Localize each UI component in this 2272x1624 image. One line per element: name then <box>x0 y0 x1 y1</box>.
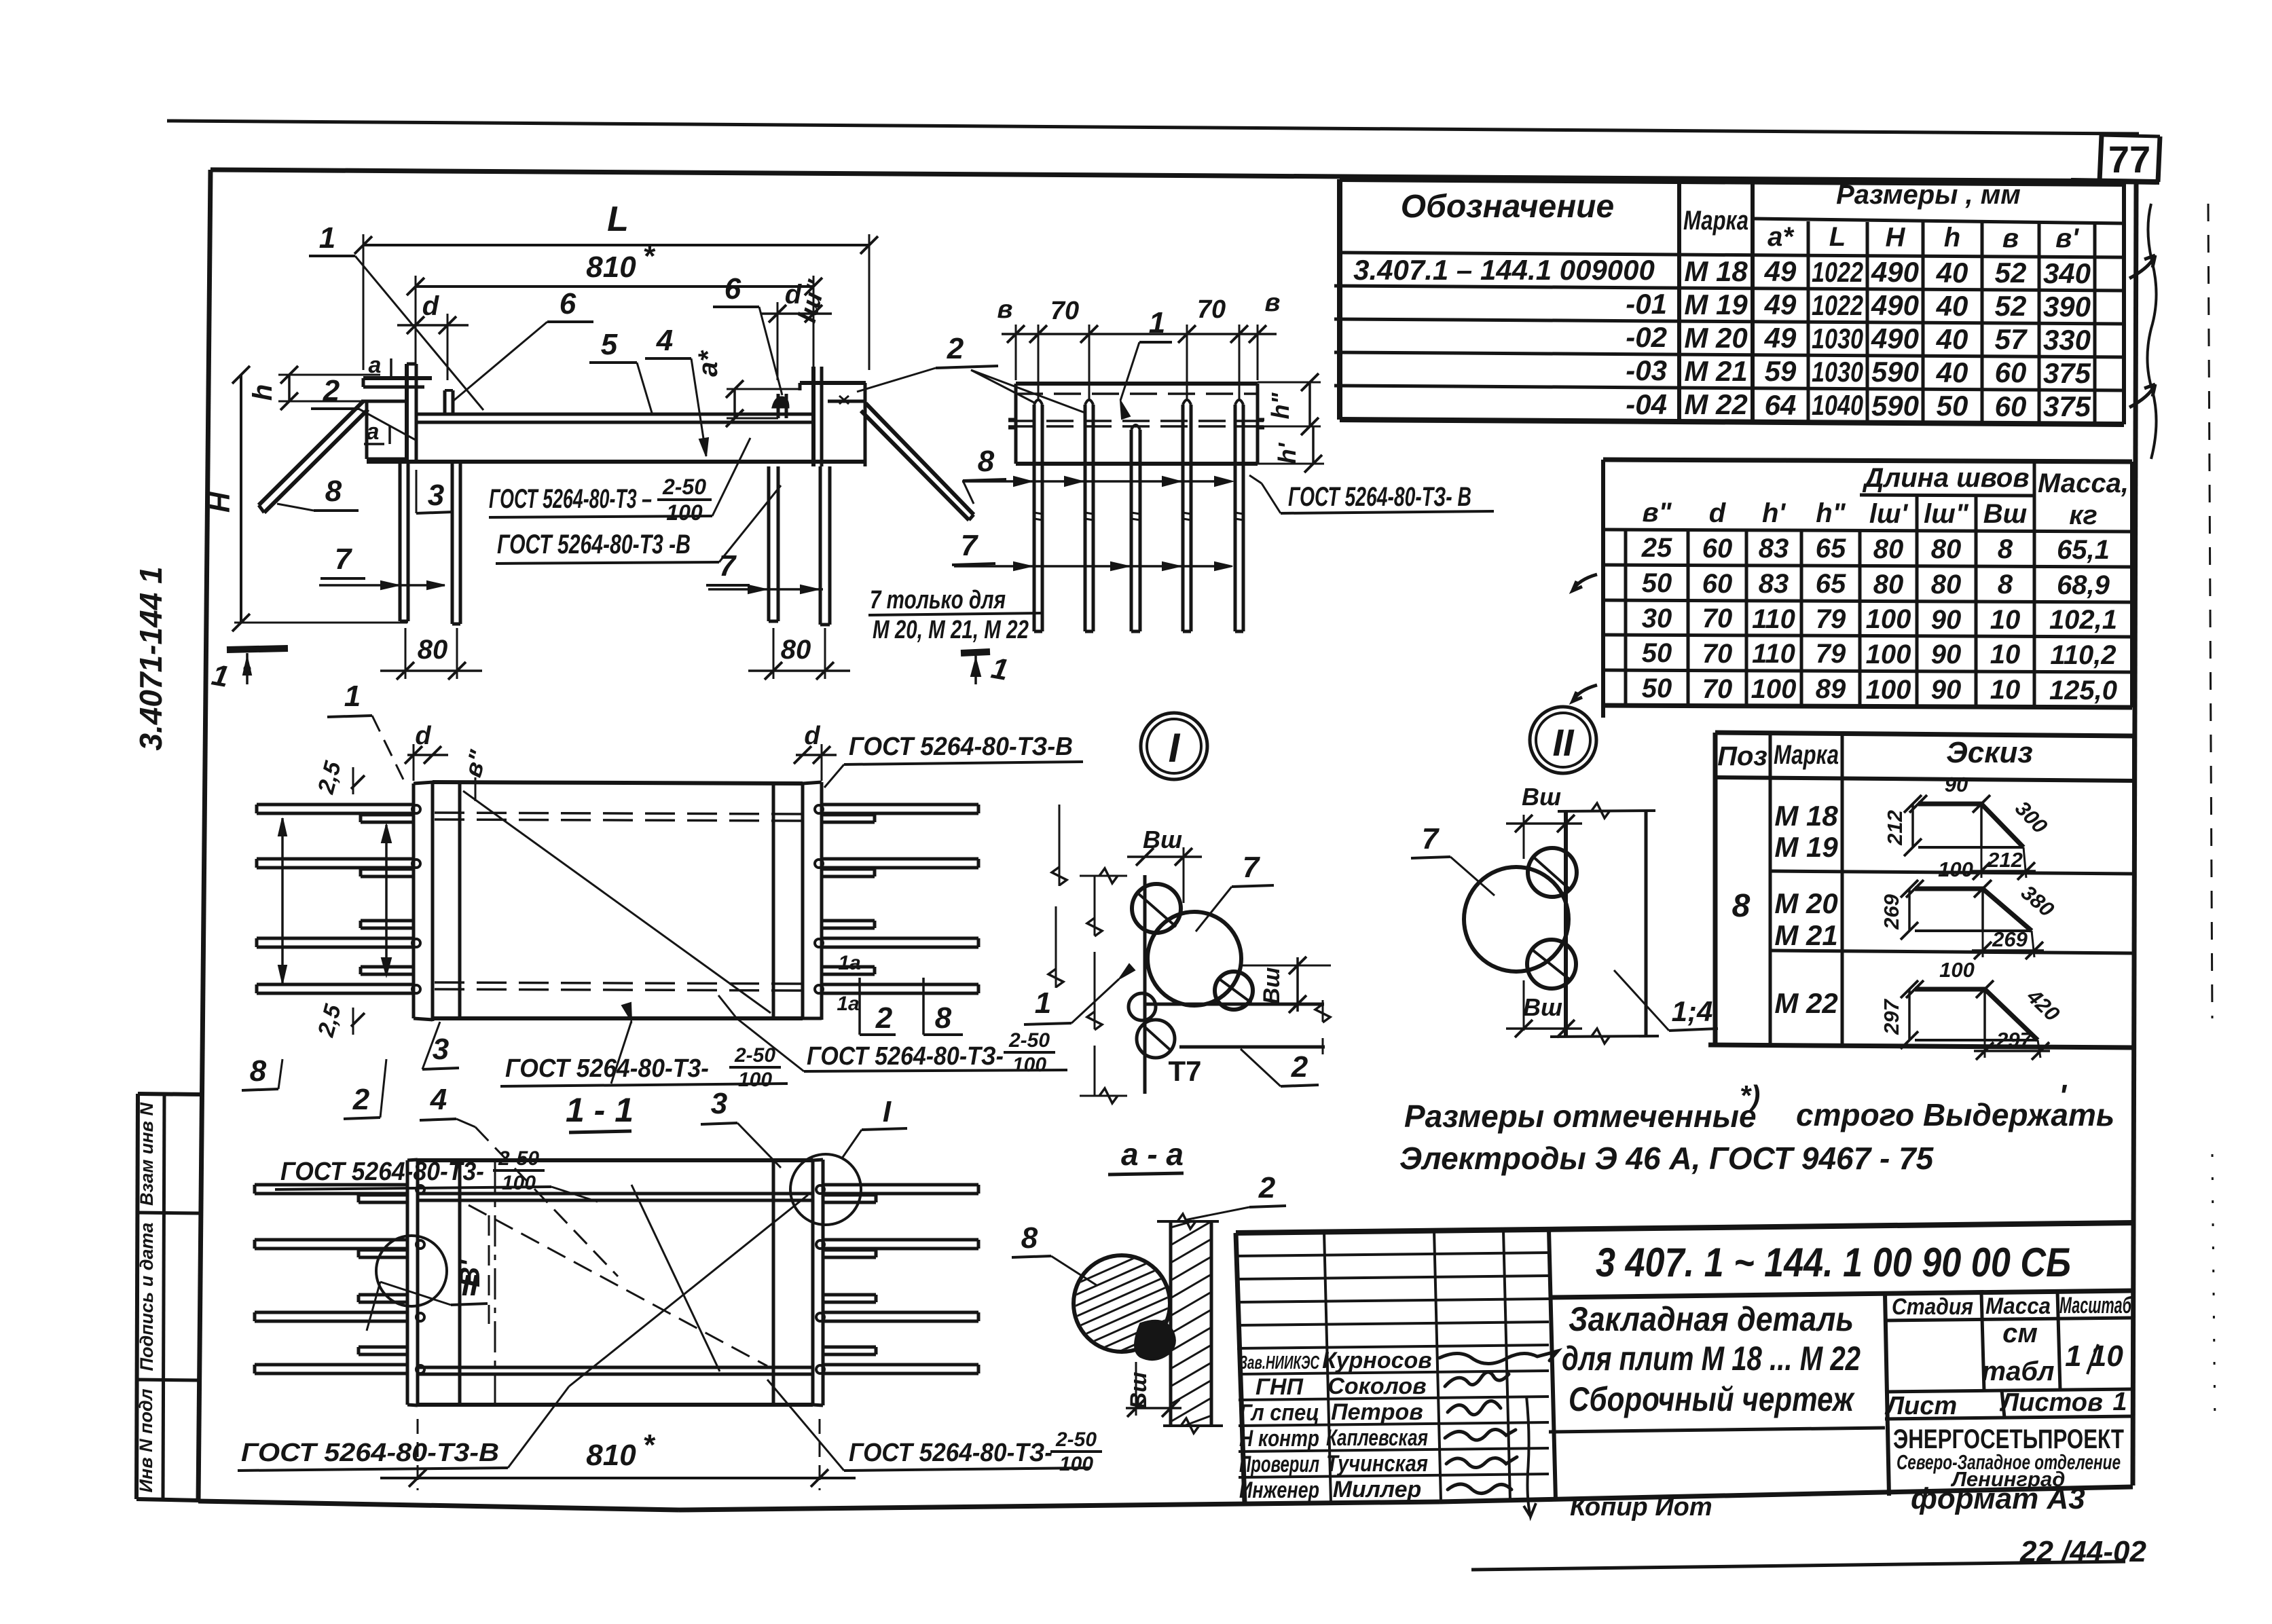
svg-text:ГОСТ 5264-80-ТЗ-: ГОСТ 5264-80-ТЗ- <box>849 1439 1052 1467</box>
svg-text:590: 590 <box>1871 356 1919 388</box>
svg-text:Копир Иот: Копир Иот <box>1570 1493 1712 1521</box>
svg-text:Обозначение: Обозначение <box>1401 189 1614 225</box>
svg-text:25: 25 <box>1641 533 1672 563</box>
weld lobe lower-left small <box>1129 993 1156 1020</box>
svg-text:70: 70 <box>1702 639 1733 669</box>
svg-text:3: 3 <box>711 1087 727 1120</box>
svg-text:52: 52 <box>1995 290 2027 322</box>
sheet top edge line <box>167 121 2139 134</box>
rod F left 2 <box>257 857 414 861</box>
rod B1 <box>1033 405 1036 631</box>
svg-text:2-50: 2-50 <box>498 1147 539 1170</box>
svg-text:100: 100 <box>1939 958 1975 982</box>
crossing leader lines <box>569 1195 808 1386</box>
svg-text:90: 90 <box>1945 773 1968 796</box>
svg-text:297: 297 <box>1996 1028 2032 1052</box>
rod section big circle <box>1148 912 1241 1005</box>
rod F right 1 <box>822 803 978 807</box>
strut pos8 left <box>259 401 363 505</box>
svg-text:М 22: М 22 <box>1774 987 1837 1019</box>
svg-text:h: h <box>248 384 278 401</box>
svg-text:формат А3: формат А3 <box>1911 1482 2085 1515</box>
dim H <box>240 375 242 623</box>
rod G left 3 <box>255 1311 407 1314</box>
dim d left <box>397 324 469 327</box>
svg-text:60: 60 <box>1702 534 1733 564</box>
svg-text:М 20: М 20 <box>1774 887 1837 919</box>
rod G left 1 <box>255 1183 407 1187</box>
detail I weld drawing <box>1024 826 1331 1175</box>
rod B3 <box>1130 430 1133 631</box>
centerline dash-dot <box>494 1162 496 1403</box>
sketch pos8 90/212 <box>1918 804 2023 847</box>
small weld tick right flange <box>839 396 849 404</box>
detail I circled marker <box>1141 713 1207 779</box>
svg-text:Соколов: Соколов <box>1327 1373 1426 1399</box>
svg-text:2: 2 <box>323 374 340 407</box>
dim h" right <box>1308 382 1311 426</box>
svg-text:кг: кг <box>2069 500 2097 530</box>
svg-text:Стадия: Стадия <box>1892 1294 1973 1320</box>
svg-text:70: 70 <box>1197 295 1226 324</box>
svg-text:490: 490 <box>1871 289 1919 321</box>
svg-text:110: 110 <box>1752 639 1795 669</box>
svg-text:100: 100 <box>1866 640 1911 669</box>
svg-text:590: 590 <box>1871 390 1919 422</box>
svg-text:60: 60 <box>1995 390 2027 422</box>
svg-text:50: 50 <box>1937 390 1968 422</box>
svg-text:8: 8 <box>978 445 995 478</box>
view B: end view with anchor rods <box>954 289 1494 631</box>
svg-text:8: 8 <box>1732 888 1751 924</box>
svg-text:в': в' <box>2055 223 2079 253</box>
detail II circled marker <box>1530 707 1596 773</box>
rod G right 2 <box>823 1238 978 1242</box>
svg-text:Длина швов: Длина швов <box>1862 463 2029 493</box>
svg-text:1: 1 <box>2112 1388 2127 1416</box>
svg-text:1022: 1022 <box>1812 289 1863 321</box>
svg-text:1а: 1а <box>837 993 859 1015</box>
hidden dashed lines top <box>435 813 801 814</box>
svg-text:I: I <box>1169 725 1181 771</box>
strut rod section circle hatched <box>1074 1255 1170 1352</box>
corbel right edge <box>864 383 867 466</box>
svg-text:Петров: Петров <box>1331 1399 1423 1425</box>
svg-text:Инв N подл: Инв N подл <box>136 1388 156 1492</box>
svg-text:lш": lш" <box>1924 499 1969 529</box>
svg-text:2-50: 2-50 <box>662 475 706 499</box>
svg-text:М 22: М 22 <box>1684 388 1747 420</box>
svg-text:ГОСТ 5264-80-Т3-: ГОСТ 5264-80-Т3- <box>505 1054 709 1083</box>
svg-text:7: 7 <box>1422 822 1440 855</box>
svg-text:49: 49 <box>1764 255 1797 287</box>
rod F right 4 <box>822 983 978 986</box>
pos1 bent plate right: flange <box>800 381 866 385</box>
svg-text:70: 70 <box>1702 604 1733 633</box>
sketch pos8 100/297 <box>1915 989 2038 1040</box>
dim d right <box>761 312 832 315</box>
svg-text:Электроды Э 46 А, ГОСТ 94: Электроды Э 46 А, ГОСТ 9467 - 75 <box>1399 1141 1935 1176</box>
svg-text:10: 10 <box>1990 605 2021 635</box>
svg-text:h': h' <box>1762 498 1786 528</box>
svg-text:40: 40 <box>1936 356 1968 388</box>
svg-text:1030: 1030 <box>1812 322 1863 354</box>
svg-text:3.407.1 – 144.1 009000: 3.407.1 – 144.1 009000 <box>1353 254 1655 286</box>
svg-text:d: d <box>1709 498 1727 528</box>
svg-text:ГОСТ 5264-80-ТЗ- В: ГОСТ 5264-80-ТЗ- В <box>1288 482 1471 512</box>
dim 80 right <box>773 628 775 679</box>
svg-text:80: 80 <box>1873 534 1904 564</box>
svg-text:Зав.НИИКЭС: Зав.НИИКЭС <box>1239 1352 1320 1373</box>
top edge <box>1558 811 1655 811</box>
plate face vertical <box>1143 875 1147 1094</box>
svg-text:М 21: М 21 <box>1774 919 1837 951</box>
main plate rectangle <box>433 782 803 783</box>
svg-text:330: 330 <box>2043 324 2091 356</box>
table: Длина швов / Масса кг <box>1573 460 2132 718</box>
svg-text:Тучинская: Тучинская <box>1326 1451 1428 1477</box>
table: Обозначение / Марка / Размеры мм <box>1334 179 2157 459</box>
right end plate <box>811 1160 815 1405</box>
rod F left 3 <box>257 937 414 940</box>
svg-text:а*: а* <box>693 350 723 377</box>
svg-text:59: 59 <box>1765 355 1797 387</box>
svg-text:Лист: Лист <box>1884 1392 1957 1420</box>
svg-text:Эскиз: Эскиз <box>1946 736 2033 769</box>
svg-text:8: 8 <box>1998 534 2013 564</box>
svg-text:375: 375 <box>2043 357 2091 389</box>
svg-text:ГНП: ГНП <box>1256 1374 1304 1400</box>
plate weld face vertical <box>1564 811 1568 1037</box>
svg-text:40: 40 <box>1936 257 1968 289</box>
svg-text:табл: табл <box>1982 1357 2055 1386</box>
svg-text:40: 40 <box>1936 290 1968 322</box>
svg-text:h: h <box>1944 223 1960 253</box>
svg-text:100: 100 <box>1938 857 1973 881</box>
svg-text:Масса,: Масса, <box>2038 468 2129 498</box>
svg-text:1: 1 <box>344 680 361 713</box>
svg-text:10: 10 <box>1990 640 2021 669</box>
svg-text:2: 2 <box>1258 1171 1276 1204</box>
section cut mark 1 left <box>227 648 288 650</box>
svg-text:8: 8 <box>1998 570 2013 599</box>
svg-text:d: d <box>415 722 431 750</box>
svg-text:Подпись и дата: Подпись и дата <box>136 1223 157 1371</box>
rod G left 2 <box>255 1238 407 1242</box>
svg-text:а: а <box>367 419 380 445</box>
svg-text:1;4: 1;4 <box>1672 995 1713 1027</box>
svg-text:52: 52 <box>1995 257 2027 289</box>
svg-text:Марка: Марка <box>1683 206 1748 236</box>
svg-text:79: 79 <box>1816 639 1846 669</box>
svg-text:ГОСТ 5264-80-Т3-В: ГОСТ 5264-80-Т3-В <box>241 1439 499 1467</box>
svg-text:89: 89 <box>1816 674 1846 704</box>
svg-text:83: 83 <box>1759 534 1789 564</box>
svg-text:100: 100 <box>738 1069 772 1091</box>
dim a* right <box>733 389 736 418</box>
left strip stamp boxes (Взам инв N / Подпись и дата / Инв N подл) <box>136 1094 200 1500</box>
svg-text:65,1: 65,1 <box>2057 535 2110 565</box>
svg-text:L: L <box>1829 222 1846 252</box>
svg-text:65: 65 <box>1816 569 1846 599</box>
detail J: strut weld to wall <box>1012 1171 1286 1433</box>
dim row в 70 70 в <box>1002 333 1277 335</box>
svg-text:2-50: 2-50 <box>1008 1029 1050 1052</box>
svg-text:79: 79 <box>1816 604 1846 634</box>
arrows 2 left <box>385 825 388 976</box>
svg-text:77: 77 <box>2108 138 2150 181</box>
hidden line dashes <box>1016 392 1258 395</box>
diagonal line <box>463 791 771 1013</box>
underline of archive number <box>1471 1562 2125 1570</box>
view G: section 1-1 <box>238 1083 1102 1490</box>
svg-text:Масса: Масса <box>1985 1293 2051 1319</box>
svg-text:2-50: 2-50 <box>734 1044 775 1067</box>
rod G left 4 <box>255 1363 407 1367</box>
svg-text:8: 8 <box>250 1054 267 1088</box>
weld lobe upper <box>1132 884 1181 933</box>
svg-text:Вш: Вш <box>1259 967 1285 1005</box>
anchor rod A2 <box>451 462 454 624</box>
svg-text:1: 1 <box>319 221 335 255</box>
svg-text:60: 60 <box>1702 569 1733 599</box>
svg-text:100: 100 <box>1059 1453 1093 1475</box>
left end plate pos3 <box>412 783 416 1018</box>
svg-text:80: 80 <box>418 635 448 665</box>
svg-text:1040: 1040 <box>1812 389 1863 421</box>
stud pos6 right with weld <box>777 394 780 418</box>
svg-text:М 19: М 19 <box>1774 831 1838 863</box>
svg-text:7: 7 <box>1243 851 1261 884</box>
svg-text:Вш: Вш <box>1143 826 1182 853</box>
svg-text:90: 90 <box>1931 640 1962 669</box>
svg-text:40: 40 <box>1936 323 1968 355</box>
svg-text:в: в <box>997 295 1013 324</box>
svg-text:М 19: М 19 <box>1684 289 1748 320</box>
svg-text:83: 83 <box>1759 569 1789 599</box>
top band double line <box>418 1192 813 1196</box>
svg-text:1: 1 <box>1035 986 1051 1020</box>
main rectangle <box>418 1158 813 1162</box>
label 2 leader two branches <box>971 370 1036 403</box>
dim h <box>288 375 291 401</box>
svg-text:H: H <box>1886 223 1906 253</box>
svg-text:а - а: а - а <box>1121 1137 1184 1172</box>
svg-text:8: 8 <box>1021 1221 1038 1255</box>
wall hatch <box>1171 1221 1211 1426</box>
svg-text:Сборочный чертеж: Сборочный чертеж <box>1569 1380 1855 1418</box>
view A: embed detail front elevation <box>204 200 1042 694</box>
anchor rod A4 <box>819 466 822 625</box>
svg-text:Миллер: Миллер <box>1333 1477 1422 1502</box>
svg-text:8: 8 <box>325 475 342 508</box>
svg-text:Вш: Вш <box>1983 499 2027 529</box>
rod B4 <box>1181 405 1185 631</box>
weld lobe bottom (T7 fillet) <box>1137 1020 1175 1058</box>
right end plate pos3 <box>801 783 805 1018</box>
svg-text:1а: 1а <box>838 952 860 974</box>
svg-text:100: 100 <box>1866 604 1911 634</box>
svg-text:100: 100 <box>1866 675 1911 705</box>
svg-text:в": в" <box>1642 498 1672 528</box>
svg-text:*): *) <box>1740 1079 1760 1111</box>
svg-text:90: 90 <box>1931 675 1962 705</box>
svg-text:65: 65 <box>1816 534 1846 564</box>
svg-text:2-50: 2-50 <box>1055 1428 1097 1451</box>
svg-text:*: * <box>642 1428 655 1462</box>
svg-text:7: 7 <box>719 549 737 583</box>
dim d top left <box>407 754 448 756</box>
svg-text:50: 50 <box>1642 638 1672 668</box>
page number box 77 <box>2071 135 2160 182</box>
svg-text:125,0: 125,0 <box>2049 676 2117 705</box>
svg-text:М 21: М 21 <box>1684 355 1747 387</box>
arrows 8 left <box>281 818 284 983</box>
svg-text:Проверил: Проверил <box>1239 1452 1319 1477</box>
svg-text:ГОСТ 5264-80-Т3 -В: ГОСТ 5264-80-Т3 -В <box>497 530 691 559</box>
left end plate <box>406 1160 409 1405</box>
svg-text:Т7: Т7 <box>1168 1055 1201 1087</box>
svg-text:375: 375 <box>2043 390 2091 422</box>
svg-text:*: * <box>642 240 655 273</box>
svg-text:см: см <box>2002 1318 2038 1348</box>
table: Поз / Марка / Эскиз <box>1708 733 2134 1060</box>
rod section big circle <box>1464 867 1569 972</box>
svg-text:490: 490 <box>1871 256 1919 288</box>
svg-text:h": h" <box>1266 392 1294 420</box>
svg-text:М 18: М 18 <box>1684 255 1748 287</box>
svg-text:50: 50 <box>1642 673 1672 703</box>
svg-text:2: 2 <box>875 1001 893 1035</box>
svg-text:3.4071-144 1: 3.4071-144 1 <box>133 566 168 750</box>
view F: plan view of embed <box>242 680 1083 1132</box>
transverse rod stubs <box>1008 418 1016 422</box>
svg-text:490: 490 <box>1871 322 1919 354</box>
svg-text:Н контр: Н контр <box>1239 1426 1319 1452</box>
svg-text:II: II <box>1552 721 1575 764</box>
weld lobe right <box>1215 972 1253 1010</box>
svg-text:h": h" <box>1816 498 1846 528</box>
paper crease line right edge <box>2208 204 2212 1018</box>
svg-text:H: H <box>204 491 236 513</box>
svg-text:80: 80 <box>1931 534 1962 564</box>
weld blob filled <box>1135 1321 1175 1359</box>
svg-text:269: 269 <box>1880 893 1903 929</box>
svg-text:212: 212 <box>1883 810 1907 846</box>
svg-text:1030: 1030 <box>1812 356 1863 388</box>
svg-text:Вш: Вш <box>1522 783 1561 811</box>
svg-text:Марка: Марка <box>1774 740 1839 770</box>
svg-text:49: 49 <box>1764 322 1797 354</box>
svg-text:80: 80 <box>781 635 811 665</box>
svg-text:100: 100 <box>1751 674 1797 704</box>
svg-text:Курносов: Курносов <box>1322 1348 1432 1373</box>
pos1 vertical plate right <box>811 367 816 466</box>
hidden dashed lines bottom <box>435 982 801 984</box>
svg-text:1022: 1022 <box>1812 256 1863 288</box>
svg-text:2: 2 <box>947 332 964 365</box>
svg-text:3: 3 <box>428 479 444 512</box>
stud pos6 left <box>443 390 447 414</box>
svg-text:a*: a* <box>1767 222 1795 252</box>
rod F right 2 <box>822 857 978 861</box>
drawing frame <box>198 170 2136 1510</box>
svg-text:80: 80 <box>1931 570 1962 599</box>
svg-text:ГОСТ 5264-80-Т3 –: ГОСТ 5264-80-Т3 – <box>489 484 652 514</box>
svg-text:h': h' <box>1273 442 1301 464</box>
svg-text:2: 2 <box>1291 1050 1308 1084</box>
dim h' right <box>1312 426 1315 464</box>
svg-text:I: I <box>883 1095 892 1128</box>
svg-text:строго Выдержать: строго Выдержать <box>1796 1097 2114 1132</box>
dim 80 left <box>405 628 407 679</box>
svg-text:8: 8 <box>935 1001 952 1035</box>
concrete corbel outline left <box>365 401 369 459</box>
svg-text:Инженер: Инженер <box>1239 1477 1319 1503</box>
plate band <box>1016 382 1258 386</box>
svg-text:М 20, М 21, М 22: М 20, М 21, М 22 <box>873 616 1029 644</box>
rod F left 1 <box>257 803 414 807</box>
svg-text:70: 70 <box>1702 674 1733 704</box>
plate pos2 horizontal <box>1145 1003 1324 1006</box>
title block <box>1236 1223 2133 1517</box>
svg-text:6: 6 <box>725 272 741 306</box>
rod G right 1 <box>823 1183 978 1187</box>
svg-text:-02: -02 <box>1626 321 1667 353</box>
sketch pos8 100/269 <box>1915 889 2032 931</box>
band bottom line <box>367 460 866 464</box>
svg-text:10: 10 <box>1990 675 2021 705</box>
dim 810* bottom <box>417 1419 419 1490</box>
svg-text:110: 110 <box>1752 604 1795 634</box>
detail circle I <box>790 1154 861 1225</box>
svg-text:297: 297 <box>1880 998 1903 1035</box>
svg-text:Поз: Поз <box>1717 741 1767 771</box>
svg-text:ГОСТ 5264-80-ТЗ-: ГОСТ 5264-80-ТЗ- <box>807 1042 1004 1071</box>
svg-text:Размеры , мм: Размеры , мм <box>1836 180 2021 210</box>
flat bar pos5 double line <box>416 413 813 416</box>
svg-text:390: 390 <box>2043 291 2091 322</box>
hidden diagonal <box>469 1205 767 1366</box>
bottom band double line <box>418 1366 813 1369</box>
svg-text:60: 60 <box>1995 356 2027 388</box>
svg-text:7 только для: 7 только для <box>870 586 1006 614</box>
svg-text:4: 4 <box>430 1083 447 1116</box>
svg-text:для плит М 18 ... М 22: для плит М 18 ... М 22 <box>1562 1340 1861 1378</box>
svg-text:4: 4 <box>656 324 673 357</box>
svg-text:Гл спец: Гл спец <box>1239 1400 1319 1426</box>
svg-text:49: 49 <box>1764 289 1797 320</box>
svg-text:L: L <box>607 200 629 239</box>
weld lobe lower <box>1527 940 1576 989</box>
pos1 bent plate left: flange <box>363 376 432 380</box>
svg-text:90: 90 <box>1931 605 1962 635</box>
bottom edge <box>1550 1036 1659 1037</box>
detail circle II <box>376 1236 447 1306</box>
svg-text:М 18: М 18 <box>1774 800 1838 832</box>
svg-text:340: 340 <box>2043 257 2091 289</box>
section cut mark 1 right <box>961 652 990 653</box>
svg-text:50: 50 <box>1642 568 1672 598</box>
svg-text:Закладная деталь: Закладная деталь <box>1569 1300 1854 1338</box>
svg-text:7: 7 <box>961 529 979 562</box>
svg-text:57: 57 <box>1995 323 2028 355</box>
detail II weld drawing <box>1411 783 1718 1044</box>
svg-text:lш': lш' <box>1869 499 1909 529</box>
svg-text:М 20: М 20 <box>1684 322 1747 354</box>
svg-text:Вш: Вш <box>1523 993 1562 1021</box>
svg-text:100: 100 <box>502 1172 536 1194</box>
